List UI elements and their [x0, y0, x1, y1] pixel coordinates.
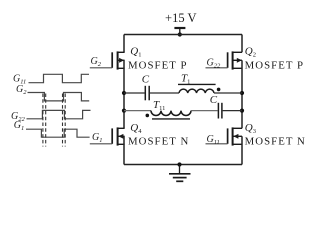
transistor Q4 (MOSFET N bottom-left) — [112, 127, 124, 145]
inductor T11 winding — [151, 111, 191, 116]
transistor Q2 (MOSFET P top-right) — [228, 51, 242, 69]
svg-text:C: C — [210, 94, 218, 106]
wire G22 gate lead — [206, 67, 228, 69]
svg-text:G11: G11 — [207, 134, 220, 146]
node left top rail junction — [122, 91, 126, 95]
wire G11 gate lead — [206, 143, 228, 145]
svg-text:Q1: Q1 — [130, 46, 141, 59]
dead-time dashed line 2 — [45, 94, 47, 147]
wire bottom rail — [124, 164, 242, 166]
power supply terminal — [174, 28, 185, 35]
wire bottom mid rail left — [124, 110, 151, 112]
dead-time dashed line 4 — [64, 94, 66, 147]
wire top mid rail right — [214, 92, 242, 94]
svg-text:Q2: Q2 — [245, 46, 256, 59]
svg-text:G2: G2 — [16, 84, 27, 96]
wire G1 gate lead — [90, 143, 112, 145]
wire Q1 drain lead — [123, 35, 125, 53]
waveform G2 — [28, 93, 90, 101]
wire Q4 source lead — [123, 136, 125, 164]
wire G2 gate lead — [90, 67, 112, 69]
wire right mid vertical (Q2 source to Q3 drain) — [241, 60, 243, 128]
capacitor C (top) — [145, 86, 149, 101]
transformer T1 core bar — [178, 83, 216, 85]
node right bottom rail junction — [240, 109, 244, 113]
svg-text:+15 V: +15 V — [165, 11, 196, 25]
node T1 polarity dot — [217, 88, 221, 92]
wire top mid rail center — [150, 92, 179, 94]
node supply junction — [178, 32, 182, 36]
node right top rail junction — [240, 91, 244, 95]
svg-text:T1: T1 — [181, 72, 190, 85]
svg-text:G1: G1 — [92, 132, 102, 144]
svg-text:C: C — [142, 74, 150, 86]
svg-text:G2: G2 — [91, 56, 102, 68]
waveform G1 — [26, 129, 90, 137]
transformer T11 core bar — [152, 118, 190, 120]
wire left mid vertical (Q1 source to Q4 drain) — [123, 60, 125, 128]
node left bottom rail junction — [122, 109, 126, 113]
wire Q3 source lead — [241, 136, 243, 164]
svg-text:T11: T11 — [153, 99, 165, 112]
svg-text:Q4: Q4 — [130, 122, 142, 135]
wire bottom mid rail right — [223, 110, 242, 112]
svg-text:MOSFET N: MOSFET N — [245, 136, 306, 148]
svg-text:MOSFET P: MOSFET P — [245, 60, 305, 72]
waveform G11 — [29, 74, 90, 82]
svg-text:MOSFET N: MOSFET N — [128, 136, 189, 148]
svg-text:G22: G22 — [207, 58, 221, 70]
wire top rail — [124, 34, 242, 36]
dead-time dashed line 3 — [62, 94, 64, 147]
transistor Q3 (MOSFET N bottom-right) — [228, 127, 242, 145]
wire bottom mid rail center — [191, 110, 218, 112]
svg-text:MOSFET P: MOSFET P — [128, 60, 188, 72]
wire top mid rail left — [124, 92, 145, 94]
ground — [169, 165, 191, 182]
transistor Q1 (MOSFET P top-left) — [112, 51, 124, 69]
node ground junction — [177, 162, 181, 166]
capacitor C (bottom) — [218, 103, 222, 119]
wire Q2 drain lead — [241, 35, 243, 53]
svg-text:Q3: Q3 — [245, 122, 256, 135]
inductor T1 primary winding — [179, 89, 214, 93]
node T11 polarity dot — [146, 114, 150, 118]
dead-time dashed line 1 — [42, 94, 44, 147]
waveform G22 — [27, 110, 91, 118]
